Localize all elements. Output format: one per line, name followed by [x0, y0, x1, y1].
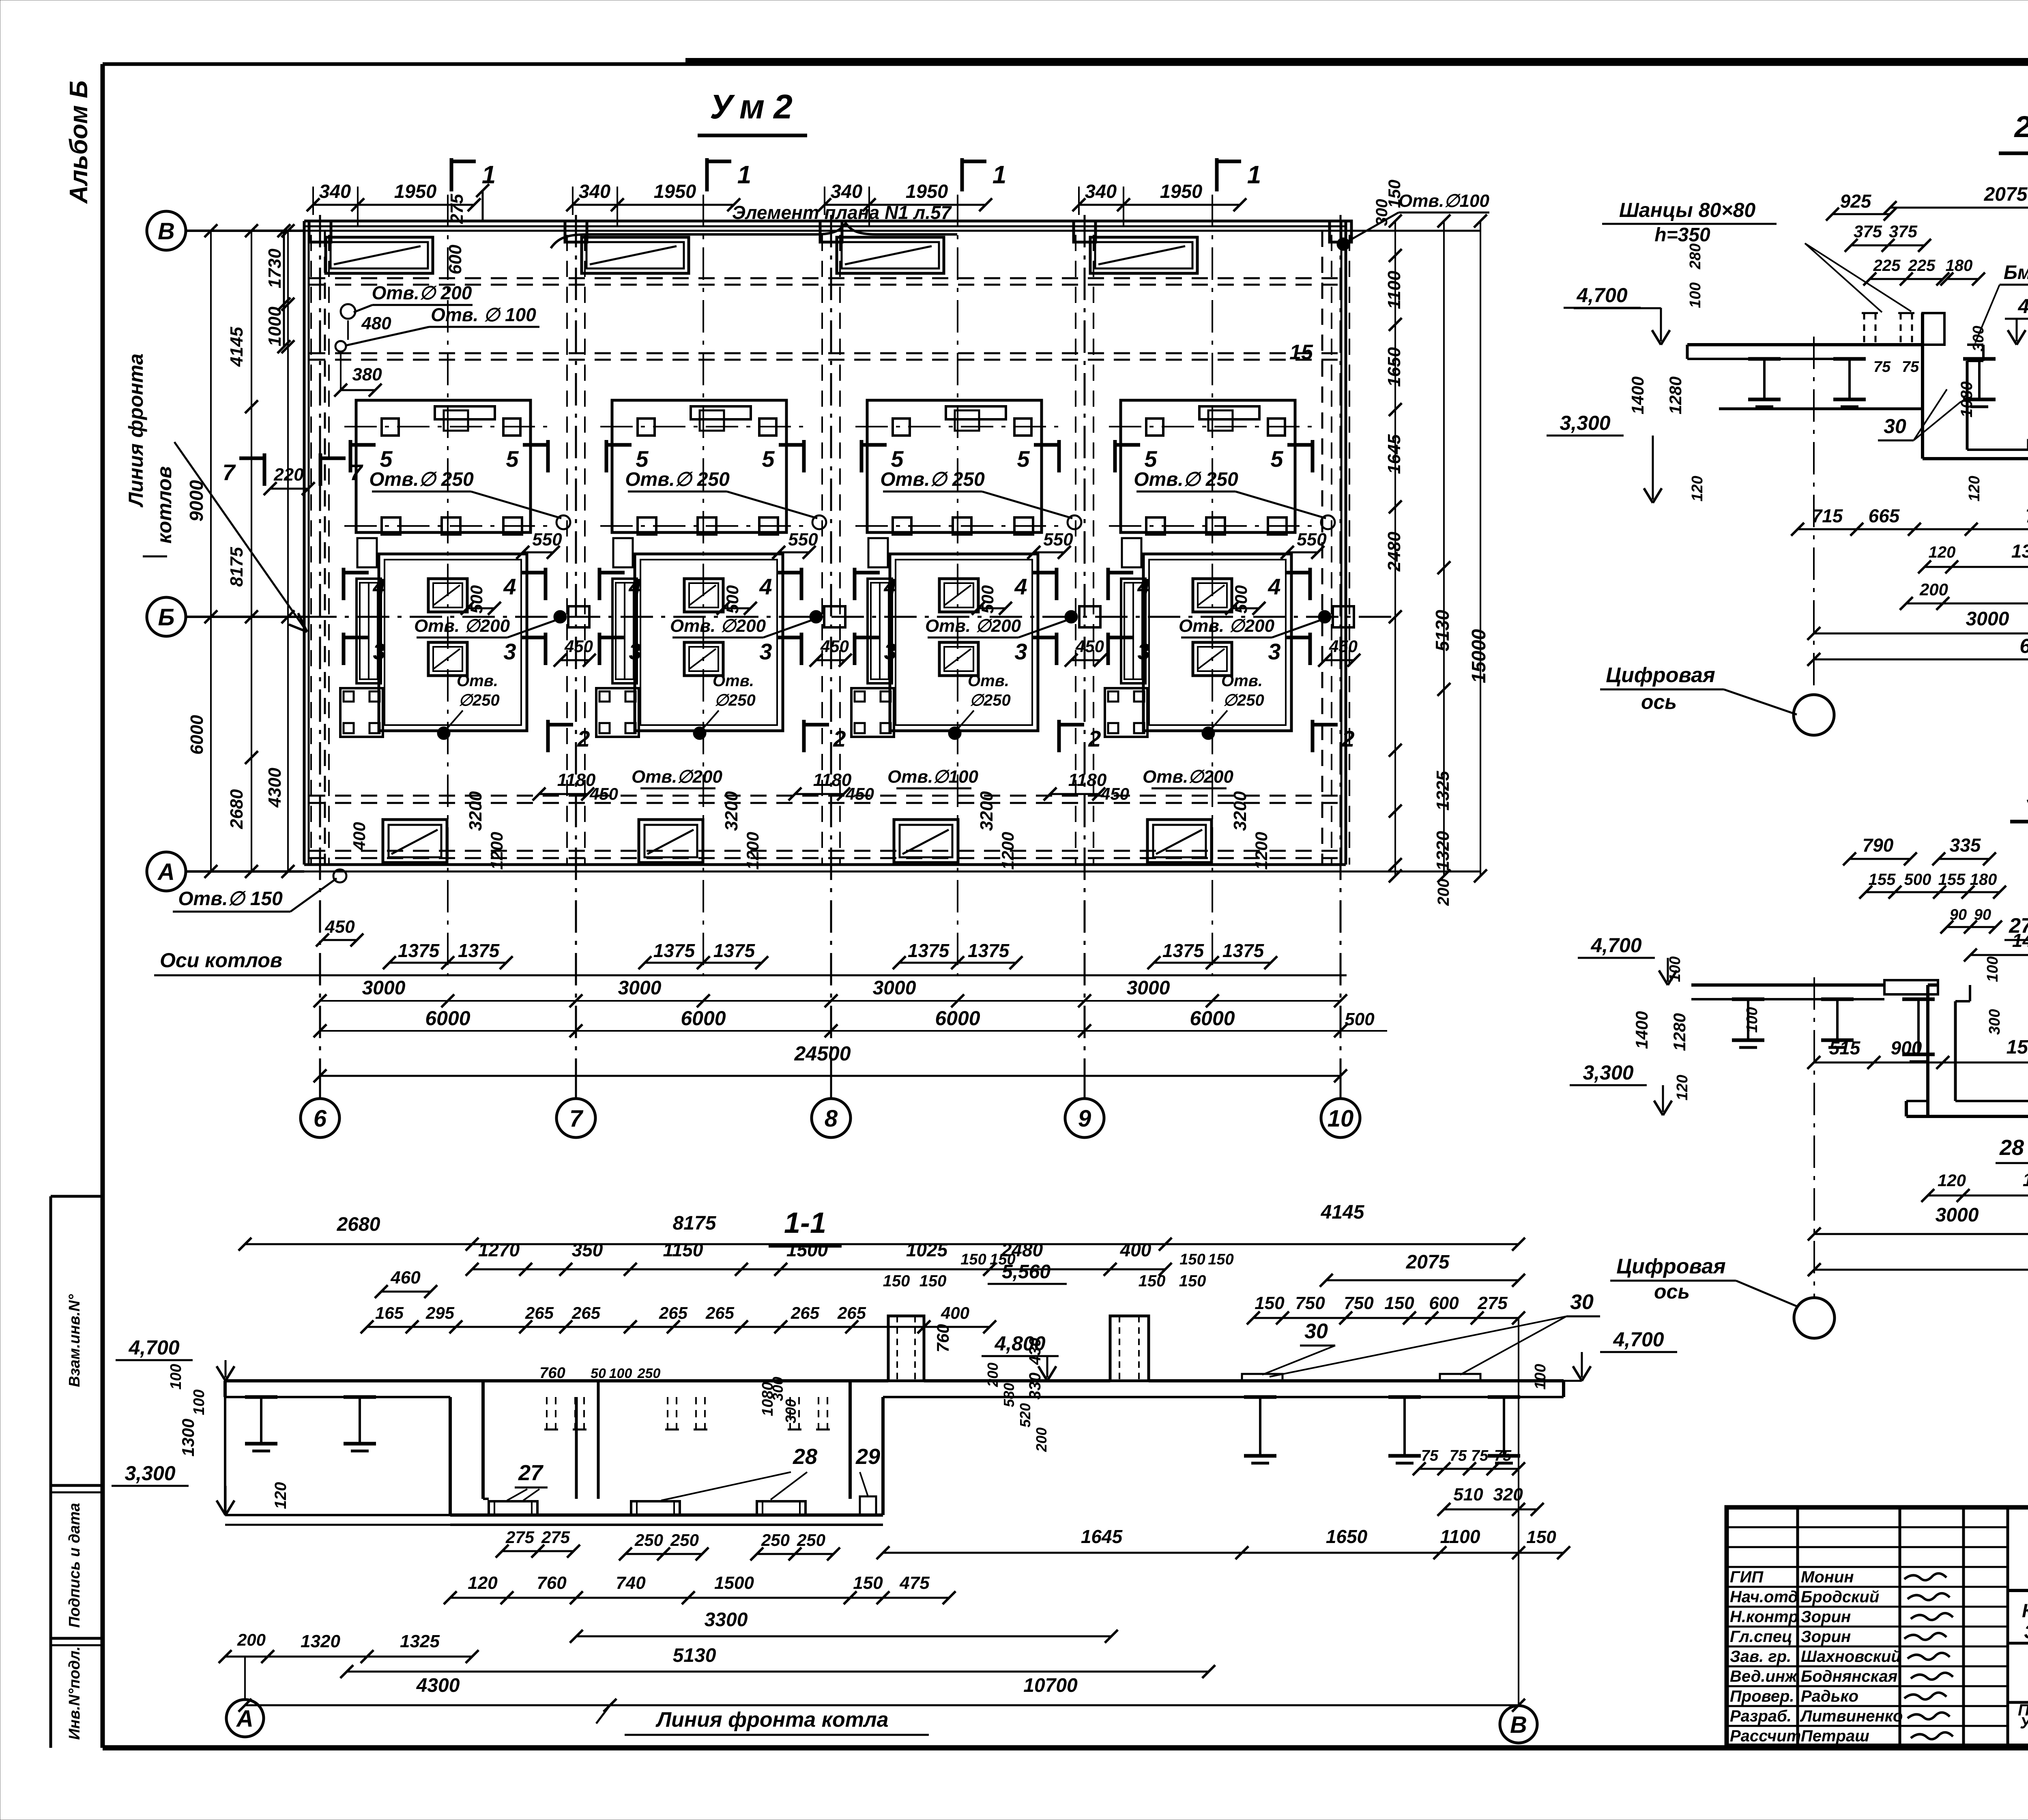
- svg-text:150: 150: [990, 1251, 1015, 1268]
- svg-text:3: 3: [759, 639, 772, 664]
- svg-text:24500: 24500: [794, 1042, 851, 1065]
- svg-text:75: 75: [1902, 358, 1919, 376]
- svg-text:6000: 6000: [2019, 635, 2028, 657]
- svg-text:6000: 6000: [1190, 1007, 1235, 1030]
- svg-text:2: 2: [1088, 726, 1101, 751]
- svg-text:Линия фронта котла: Линия фронта котла: [655, 1708, 888, 1732]
- svg-text:Нач.отд: Нач.отд: [1730, 1588, 1798, 1606]
- svg-text:400: 400: [350, 822, 369, 851]
- svg-text:Отв.∅200: Отв.∅200: [1143, 767, 1233, 787]
- svg-text:1270: 1270: [478, 1239, 520, 1260]
- svg-text:350: 350: [572, 1239, 603, 1260]
- svg-text:3200: 3200: [722, 791, 741, 831]
- svg-text:450: 450: [1329, 637, 1358, 656]
- svg-text:450: 450: [564, 637, 593, 656]
- svg-text:50: 50: [591, 1366, 606, 1381]
- svg-text:Отв.∅ 250: Отв.∅ 250: [880, 469, 985, 490]
- svg-text:1950: 1950: [654, 180, 696, 202]
- svg-text:Элемент плана N1 л.57: Элемент плана N1 л.57: [732, 202, 952, 223]
- svg-text:150: 150: [919, 1272, 947, 1290]
- svg-text:3000: 3000: [873, 977, 916, 999]
- svg-text:Бродский: Бродский: [1801, 1588, 1879, 1606]
- svg-text:1-1: 1-1: [784, 1207, 826, 1239]
- svg-text:1200: 1200: [487, 832, 506, 869]
- svg-text:Отв.∅200: Отв.∅200: [632, 767, 722, 787]
- svg-text:500: 500: [1345, 1009, 1375, 1029]
- svg-text:3200: 3200: [466, 791, 486, 831]
- svg-text:Участок монолитный Ум2.: Участок монолитный Ум2.: [2020, 1714, 2028, 1732]
- svg-text:790: 790: [1863, 835, 1894, 856]
- svg-text:4300: 4300: [416, 1675, 460, 1696]
- svg-text:265: 265: [571, 1303, 601, 1322]
- svg-text:3000: 3000: [1966, 608, 2009, 630]
- svg-text:А: А: [157, 859, 175, 885]
- svg-text:2075: 2075: [1406, 1251, 1450, 1273]
- svg-text:340: 340: [831, 180, 862, 202]
- svg-text:30: 30: [1570, 1290, 1594, 1314]
- svg-text:1200: 1200: [998, 832, 1017, 869]
- svg-text:1325: 1325: [400, 1631, 440, 1651]
- svg-text:1375: 1375: [908, 940, 950, 961]
- svg-text:28: 28: [793, 1444, 817, 1469]
- svg-text:1375: 1375: [458, 940, 500, 961]
- svg-text:1375: 1375: [1222, 940, 1265, 961]
- svg-text:Гл.спец: Гл.спец: [1730, 1628, 1792, 1646]
- svg-text:ось: ось: [1641, 691, 1677, 713]
- svg-text:Альбом Б: Альбом Б: [65, 80, 93, 204]
- svg-text:1730: 1730: [265, 249, 285, 288]
- svg-text:Отв.: Отв.: [1221, 672, 1263, 690]
- svg-text:Цифровая: Цифровая: [1616, 1255, 1725, 1278]
- svg-text:3,300: 3,300: [1583, 1061, 1633, 1084]
- svg-text:1100: 1100: [1384, 270, 1404, 309]
- svg-text:4: 4: [759, 574, 772, 599]
- svg-text:∅250: ∅250: [1223, 691, 1264, 709]
- svg-text:4,700: 4,700: [1590, 934, 1641, 957]
- svg-text:27: 27: [2009, 914, 2028, 938]
- svg-text:1280: 1280: [1666, 376, 1685, 414]
- svg-text:100: 100: [1984, 956, 2001, 982]
- svg-text:460: 460: [390, 1268, 421, 1288]
- svg-text:Отв. ∅200: Отв. ∅200: [925, 616, 1021, 636]
- svg-text:200: 200: [984, 1363, 1001, 1387]
- svg-text:Линия фронта: Линия фронта: [125, 354, 147, 508]
- svg-text:5130: 5130: [1432, 610, 1453, 651]
- svg-text:1500: 1500: [786, 1239, 828, 1260]
- svg-text:275: 275: [505, 1528, 535, 1547]
- svg-text:8175: 8175: [673, 1213, 717, 1234]
- svg-text:1025: 1025: [906, 1239, 948, 1260]
- svg-text:5: 5: [636, 446, 649, 472]
- svg-text:5: 5: [506, 446, 519, 472]
- svg-text:120: 120: [1966, 476, 1983, 501]
- svg-text:1: 1: [737, 161, 751, 189]
- svg-text:2: 2: [577, 726, 590, 751]
- svg-text:925: 925: [1840, 191, 1872, 212]
- svg-text:4: 4: [1267, 574, 1280, 599]
- svg-text:150: 150: [1179, 1251, 1205, 1268]
- svg-text:580: 580: [1001, 1383, 1017, 1407]
- svg-text:450: 450: [1100, 784, 1129, 803]
- svg-text:380: 380: [352, 365, 382, 384]
- svg-text:250: 250: [670, 1530, 699, 1550]
- svg-text:Боднянская: Боднянская: [1801, 1668, 1897, 1685]
- svg-text:Вед.инж: Вед.инж: [1730, 1668, 1798, 1685]
- svg-text:250: 250: [761, 1530, 790, 1550]
- svg-text:1280: 1280: [1670, 1013, 1689, 1051]
- svg-text:520: 520: [1017, 1403, 1033, 1427]
- svg-text:4: 4: [1014, 574, 1027, 599]
- svg-text:400: 400: [1120, 1239, 1151, 1260]
- svg-text:600: 600: [1429, 1293, 1459, 1313]
- svg-text:8175: 8175: [227, 547, 247, 587]
- svg-text:155: 155: [1869, 871, 1896, 889]
- svg-text:450: 450: [845, 784, 874, 803]
- svg-text:Отв.∅100: Отв.∅100: [1399, 191, 1489, 211]
- svg-text:165: 165: [375, 1303, 404, 1322]
- svg-text:3-3: 3-3: [2027, 778, 2028, 811]
- svg-text:В: В: [1510, 1712, 1527, 1738]
- svg-text:180: 180: [1946, 257, 1973, 275]
- svg-text:4145: 4145: [227, 327, 247, 367]
- svg-text:150: 150: [1384, 1293, 1414, 1313]
- svg-text:340: 340: [579, 180, 610, 202]
- svg-text:Б: Б: [158, 604, 174, 631]
- svg-text:715: 715: [1812, 505, 1843, 526]
- svg-text:200: 200: [1919, 580, 1948, 599]
- svg-text:Зорин: Зорин: [1801, 1608, 1851, 1626]
- svg-text:150: 150: [853, 1573, 883, 1593]
- svg-text:ГИП: ГИП: [1730, 1568, 1764, 1586]
- svg-text:3: 3: [629, 639, 641, 664]
- svg-text:150: 150: [1208, 1251, 1233, 1268]
- svg-text:760: 760: [539, 1365, 565, 1382]
- svg-text:9000: 9000: [186, 480, 207, 522]
- svg-text:200: 200: [1435, 879, 1452, 906]
- svg-text:6000: 6000: [187, 715, 207, 755]
- svg-text:100: 100: [191, 1389, 208, 1415]
- svg-text:1950: 1950: [906, 180, 948, 202]
- svg-text:1: 1: [1247, 161, 1261, 189]
- svg-text:330: 330: [1026, 1373, 1044, 1400]
- svg-text:3000: 3000: [1936, 1204, 1979, 1226]
- svg-text:1325: 1325: [1433, 771, 1453, 811]
- svg-text:335: 335: [1950, 835, 1981, 856]
- svg-text:120: 120: [1674, 1075, 1691, 1100]
- svg-text:100: 100: [1744, 1007, 1761, 1032]
- svg-text:Радько: Радько: [1801, 1687, 1858, 1705]
- svg-text:∅250: ∅250: [969, 691, 1011, 709]
- svg-text:375: 375: [1854, 222, 1882, 241]
- svg-text:75: 75: [1421, 1447, 1439, 1464]
- svg-text:275: 275: [1477, 1293, 1508, 1313]
- svg-text:3: 3: [503, 639, 516, 664]
- svg-text:Отв.: Отв.: [457, 672, 498, 690]
- svg-text:6000: 6000: [425, 1007, 470, 1030]
- svg-text:3: 3: [1014, 639, 1027, 664]
- svg-text:1: 1: [993, 161, 1006, 189]
- svg-text:500: 500: [723, 585, 742, 614]
- svg-text:510: 510: [1453, 1485, 1483, 1505]
- svg-text:Отв.∅ 250: Отв.∅ 250: [625, 469, 730, 490]
- svg-text:3: 3: [1137, 639, 1150, 664]
- svg-text:500: 500: [467, 585, 486, 614]
- svg-text:6000: 6000: [935, 1007, 980, 1030]
- svg-text:450: 450: [1075, 637, 1104, 656]
- svg-text:2680: 2680: [337, 1214, 380, 1235]
- svg-text:3000: 3000: [1127, 977, 1170, 999]
- svg-text:250: 250: [634, 1530, 663, 1550]
- svg-text:5: 5: [762, 446, 775, 472]
- svg-text:Отв. ∅ 100: Отв. ∅ 100: [431, 304, 536, 325]
- svg-text:1200: 1200: [1252, 832, 1271, 869]
- svg-text:450: 450: [589, 784, 618, 803]
- svg-text:515: 515: [1829, 1037, 1861, 1058]
- svg-text:10700: 10700: [1023, 1675, 1078, 1696]
- svg-text:Отв. ∅200: Отв. ∅200: [414, 616, 510, 636]
- svg-text:Взам.инв.N°: Взам.инв.N°: [66, 1294, 83, 1387]
- svg-text:Подпись и дата: Подпись и дата: [66, 1503, 83, 1628]
- svg-text:∅250: ∅250: [458, 691, 500, 709]
- svg-text:Шахновский: Шахновский: [1801, 1648, 1901, 1665]
- svg-text:1375: 1375: [398, 940, 440, 961]
- svg-text:Литвиненко: Литвиненко: [1800, 1707, 1903, 1725]
- svg-text:1375: 1375: [2011, 541, 2028, 562]
- svg-text:Отв.∅ 250: Отв.∅ 250: [369, 469, 474, 490]
- svg-text:100: 100: [1667, 956, 1684, 982]
- svg-text:4: 4: [628, 574, 641, 599]
- svg-text:1650: 1650: [1326, 1526, 1368, 1547]
- svg-text:5: 5: [1270, 446, 1283, 472]
- svg-text:1500: 1500: [714, 1573, 754, 1593]
- svg-text:Отв.∅100: Отв.∅100: [887, 767, 978, 787]
- svg-text:2: 2: [833, 726, 846, 751]
- svg-text:5: 5: [1144, 446, 1157, 472]
- svg-text:4: 4: [503, 574, 516, 599]
- svg-text:4: 4: [1137, 574, 1150, 599]
- svg-text:500: 500: [978, 585, 997, 614]
- svg-text:375: 375: [1889, 222, 1918, 241]
- svg-text:1080: 1080: [759, 1382, 776, 1417]
- svg-text:1375: 1375: [713, 940, 756, 961]
- svg-text:4,700: 4,700: [128, 1336, 179, 1359]
- svg-text:4,700: 4,700: [1576, 284, 1627, 307]
- svg-text:150: 150: [1179, 1272, 1206, 1290]
- svg-text:265: 265: [659, 1303, 688, 1322]
- svg-text:1150: 1150: [663, 1239, 703, 1260]
- svg-text:275: 275: [447, 194, 467, 224]
- svg-text:600: 600: [445, 245, 465, 275]
- svg-text:750: 750: [1295, 1293, 1325, 1313]
- svg-text:3: 3: [1268, 639, 1280, 664]
- svg-text:75: 75: [1494, 1447, 1512, 1464]
- svg-text:Цифровая: Цифровая: [1606, 663, 1715, 687]
- svg-text:А: А: [236, 1706, 253, 1732]
- svg-text:665: 665: [1869, 505, 1900, 526]
- svg-text:265: 265: [837, 1303, 866, 1322]
- svg-text:27: 27: [518, 1461, 544, 1485]
- svg-text:h=350: h=350: [1654, 224, 1710, 246]
- svg-text:150: 150: [1526, 1527, 1556, 1547]
- svg-text:75: 75: [1450, 1447, 1467, 1464]
- svg-text:1375: 1375: [2023, 1169, 2028, 1190]
- svg-text:740: 740: [616, 1573, 646, 1593]
- svg-text:1645: 1645: [1081, 1526, 1123, 1547]
- svg-text:3: 3: [373, 639, 385, 664]
- svg-text:3: 3: [884, 639, 896, 664]
- svg-text:1950: 1950: [394, 180, 437, 202]
- svg-text:3200: 3200: [1230, 791, 1250, 831]
- svg-text:4145: 4145: [1321, 1202, 1365, 1223]
- svg-text:6: 6: [314, 1105, 327, 1132]
- svg-text:29: 29: [855, 1444, 880, 1469]
- svg-text:300: 300: [782, 1399, 799, 1423]
- svg-text:1650: 1650: [1384, 347, 1404, 387]
- svg-text:3000: 3000: [362, 977, 406, 999]
- svg-text:Отв.∅ 250: Отв.∅ 250: [1134, 469, 1238, 490]
- svg-text:280: 280: [1687, 243, 1704, 269]
- svg-text:1400: 1400: [1632, 1011, 1651, 1049]
- svg-text:9: 9: [1078, 1105, 1091, 1132]
- svg-text:150: 150: [883, 1272, 910, 1290]
- svg-text:28: 28: [1999, 1135, 2024, 1160]
- svg-text:7: 7: [350, 459, 363, 485]
- svg-text:Бм1: Бм1: [2004, 262, 2028, 283]
- svg-text:В: В: [158, 218, 175, 245]
- svg-text:200: 200: [237, 1630, 266, 1649]
- svg-text:Разраб.: Разраб.: [1730, 1707, 1792, 1725]
- svg-text:150: 150: [960, 1251, 986, 1268]
- svg-text:200: 200: [1033, 1427, 1050, 1452]
- svg-text:75: 75: [1873, 358, 1891, 376]
- svg-text:6000: 6000: [681, 1007, 726, 1030]
- svg-text:Провер.: Провер.: [1730, 1687, 1794, 1705]
- svg-text:1300: 1300: [178, 1419, 198, 1456]
- svg-text:120: 120: [272, 1482, 290, 1509]
- svg-text:30: 30: [1304, 1320, 1328, 1343]
- svg-text:Отв. ∅200: Отв. ∅200: [1179, 616, 1275, 636]
- svg-text:Отв.: Отв.: [713, 672, 754, 690]
- svg-text:300: 300: [1986, 1009, 2003, 1034]
- svg-text:250: 250: [637, 1366, 661, 1381]
- svg-text:30: 30: [1884, 415, 1906, 438]
- svg-text:Рассчит: Рассчит: [1730, 1727, 1801, 1745]
- svg-text:3300: 3300: [705, 1609, 748, 1631]
- svg-text:75: 75: [1471, 1447, 1489, 1464]
- svg-text:5: 5: [1017, 446, 1030, 472]
- svg-text:ось: ось: [1654, 1280, 1690, 1303]
- svg-text:100: 100: [1687, 282, 1704, 308]
- svg-text:7: 7: [569, 1105, 584, 1132]
- svg-text:2: 2: [1341, 726, 1354, 751]
- svg-text:120: 120: [468, 1573, 498, 1593]
- svg-text:Монин: Монин: [1801, 1568, 1854, 1586]
- svg-text:100: 100: [168, 1364, 185, 1389]
- svg-text:265: 265: [525, 1303, 554, 1322]
- svg-text:∅250: ∅250: [714, 691, 756, 709]
- svg-text:475: 475: [899, 1573, 930, 1593]
- svg-text:2-2: 2-2: [2014, 110, 2028, 144]
- svg-text:1000: 1000: [265, 307, 285, 346]
- svg-text:Отв.: Отв.: [968, 672, 1009, 690]
- svg-text:2680: 2680: [227, 789, 247, 829]
- svg-text:Золошлакоудаление механическо: Золошлакоудаление механическое: [2024, 1621, 2028, 1642]
- svg-text:Оси котлов: Оси котлов: [160, 949, 282, 972]
- svg-text:4,800: 4,800: [2017, 295, 2028, 318]
- svg-text:1375: 1375: [653, 940, 696, 961]
- svg-text:750: 750: [2026, 505, 2028, 526]
- svg-text:2075: 2075: [1984, 184, 2028, 205]
- svg-text:2480: 2480: [1384, 532, 1404, 572]
- svg-text:5130: 5130: [673, 1645, 716, 1666]
- svg-text:120: 120: [1938, 1171, 1966, 1190]
- svg-text:1320: 1320: [301, 1631, 340, 1651]
- svg-text:750: 750: [1344, 1293, 1374, 1313]
- svg-text:1400: 1400: [1628, 376, 1647, 414]
- svg-text:Инв.N°подл.: Инв.N°подл.: [66, 1646, 83, 1740]
- svg-text:3,300: 3,300: [125, 1462, 175, 1485]
- svg-text:Отв. ∅200: Отв. ∅200: [670, 616, 766, 636]
- svg-text:3200: 3200: [977, 791, 997, 831]
- svg-text:400: 400: [941, 1303, 969, 1322]
- svg-text:1585: 1585: [2007, 1037, 2028, 1058]
- svg-text:295: 295: [425, 1303, 455, 1322]
- svg-text:Отв.∅ 200: Отв.∅ 200: [372, 282, 472, 303]
- svg-text:225: 225: [1873, 257, 1901, 275]
- svg-text:4: 4: [372, 574, 385, 599]
- svg-text:7: 7: [222, 459, 236, 485]
- svg-text:100: 100: [609, 1366, 632, 1381]
- svg-text:Котельная с 4 котлами Е-10-1,: Котельная с 4 котлами Е-10-1,4Р: [2022, 1600, 2028, 1621]
- svg-text:Петраш: Петраш: [1801, 1727, 1869, 1745]
- svg-text:760: 760: [933, 1324, 952, 1352]
- svg-text:10: 10: [1328, 1105, 1354, 1132]
- svg-text:150: 150: [1255, 1293, 1285, 1313]
- svg-text:1080: 1080: [1958, 382, 1976, 418]
- svg-text:1375: 1375: [1162, 940, 1205, 961]
- svg-text:4: 4: [883, 574, 896, 599]
- svg-text:5: 5: [380, 446, 393, 472]
- svg-text:котлов: котлов: [153, 466, 176, 544]
- svg-text:Ум2: Ум2: [710, 88, 793, 126]
- svg-text:500: 500: [1231, 585, 1250, 614]
- svg-text:Н.контр: Н.контр: [1730, 1608, 1798, 1626]
- svg-text:1100: 1100: [1440, 1526, 1480, 1547]
- svg-text:480: 480: [361, 313, 391, 333]
- svg-text:120: 120: [1929, 543, 1956, 561]
- svg-text:265: 265: [705, 1303, 735, 1322]
- svg-text:155: 155: [1938, 871, 1966, 889]
- svg-text:275: 275: [541, 1528, 570, 1547]
- svg-text:15000: 15000: [1468, 629, 1490, 683]
- svg-text:450: 450: [820, 637, 849, 656]
- svg-text:900: 900: [1891, 1037, 1922, 1058]
- svg-text:1320: 1320: [1433, 831, 1453, 871]
- svg-text:3000: 3000: [618, 977, 662, 999]
- svg-text:Зав. гр.: Зав. гр.: [1730, 1648, 1791, 1665]
- svg-text:8: 8: [825, 1105, 838, 1132]
- svg-text:150: 150: [1139, 1272, 1166, 1290]
- svg-text:265: 265: [791, 1303, 820, 1322]
- svg-text:1645: 1645: [1384, 434, 1404, 474]
- svg-text:340: 340: [1085, 180, 1117, 202]
- svg-text:500: 500: [1904, 871, 1931, 889]
- svg-text:15: 15: [1289, 341, 1313, 364]
- svg-text:Зорин: Зорин: [1801, 1628, 1851, 1646]
- svg-text:760: 760: [537, 1573, 567, 1593]
- svg-text:120: 120: [1689, 476, 1706, 501]
- svg-text:5: 5: [891, 446, 904, 472]
